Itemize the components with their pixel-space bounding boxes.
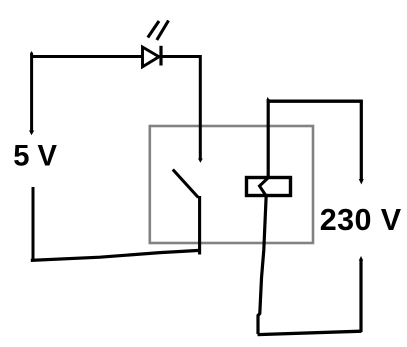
relay coil K1: chevron through coil (260, 178, 269, 197)
relay enclosure box (gray) (150, 126, 313, 243)
arrowhead at switch top terminal (198, 159, 203, 163)
relay coil K1: rectangle (247, 178, 291, 196)
wire 230V right vertical upper (360, 100, 363, 181)
switch lower terminal wire (198, 196, 201, 255)
wire relay coil bottom down to bottom rail (258, 195, 266, 334)
tip above top-left corner (30, 51, 33, 57)
wire relay coil top (from 230V top rail) (267, 99, 270, 178)
wire left upper vertical (5V loop) (30, 53, 33, 132)
LED D1: cathode bar (159, 46, 162, 66)
wire left lower vertical (5V loop) (32, 187, 35, 261)
arrowhead at end of left upper wire (29, 131, 34, 136)
wire bottom slanted (5V loop return) (31, 250, 200, 260)
tip at start of right lower wire (359, 256, 363, 261)
wire top horizontal (5V loop, anode side) (31, 55, 142, 58)
switch blade (173, 170, 199, 198)
wire 230V bottom rail (258, 331, 362, 334)
LED light slash 1 (148, 21, 159, 38)
tip at 230V top-left corner (267, 97, 270, 100)
wire 230V right vertical lower (359, 260, 362, 333)
wire 230V top rail (267, 99, 363, 102)
wire cathode to corner and down to switch (161, 55, 200, 159)
LED light slash 2 (157, 21, 169, 41)
LED D1: triangle (143, 47, 160, 67)
svg-text:230 V: 230 V (320, 203, 402, 237)
arrowhead at right upper wire end (359, 179, 364, 185)
svg-text:5 V: 5 V (13, 141, 57, 173)
